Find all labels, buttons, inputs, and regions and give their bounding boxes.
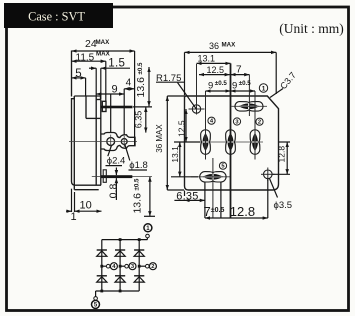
svg-text:13.1: 13.1 [198,54,216,64]
svg-text:12.8: 12.8 [277,146,287,163]
svg-text:13.6: 13.6 [132,193,144,214]
svg-text:ϕ2.4: ϕ2.4 [107,155,126,166]
svg-text:ϕ1.8: ϕ1.8 [129,160,148,171]
svg-text:ϕ3.5: ϕ3.5 [274,200,293,211]
svg-text:13.1: 13.1 [170,146,180,163]
svg-text:12.5: 12.5 [207,65,225,75]
svg-text:7: 7 [204,204,211,219]
svg-text:5: 5 [75,68,81,80]
svg-text:±0.5: ±0.5 [211,207,225,214]
svg-text:10: 10 [80,199,92,211]
svg-text:6.35: 6.35 [176,190,198,202]
svg-text:±0.5: ±0.5 [215,80,228,87]
svg-text:11.5: 11.5 [76,52,95,63]
svg-text:2: 2 [151,264,154,270]
svg-text:9: 9 [208,81,213,92]
svg-text:(Unit : mm): (Unit : mm) [279,21,344,36]
svg-text:MAX: MAX [96,39,111,46]
svg-text:1: 1 [71,211,77,223]
svg-text:±0.5: ±0.5 [239,80,252,87]
svg-text:Case : SVT: Case : SVT [28,10,85,24]
svg-text:1: 1 [262,85,266,92]
svg-text:±0.5: ±0.5 [137,62,144,75]
svg-text:12.5: 12.5 [176,120,186,137]
svg-text:13.6: 13.6 [135,77,147,98]
svg-text:7: 7 [236,65,242,76]
svg-text:4: 4 [126,77,132,88]
svg-text:12.8: 12.8 [230,204,255,219]
svg-text:6.35: 6.35 [134,111,144,129]
svg-text:2: 2 [258,120,261,126]
svg-text:0.8: 0.8 [107,184,119,199]
svg-text:36: 36 [209,41,219,51]
svg-text:9: 9 [232,81,237,92]
svg-text:±0.5: ±0.5 [134,178,141,191]
svg-text:MAX: MAX [222,42,237,49]
svg-text:R1.75: R1.75 [156,73,181,84]
svg-text:9: 9 [112,84,118,96]
svg-text:1.5: 1.5 [108,57,125,69]
svg-text:36 MAX: 36 MAX [155,124,164,153]
